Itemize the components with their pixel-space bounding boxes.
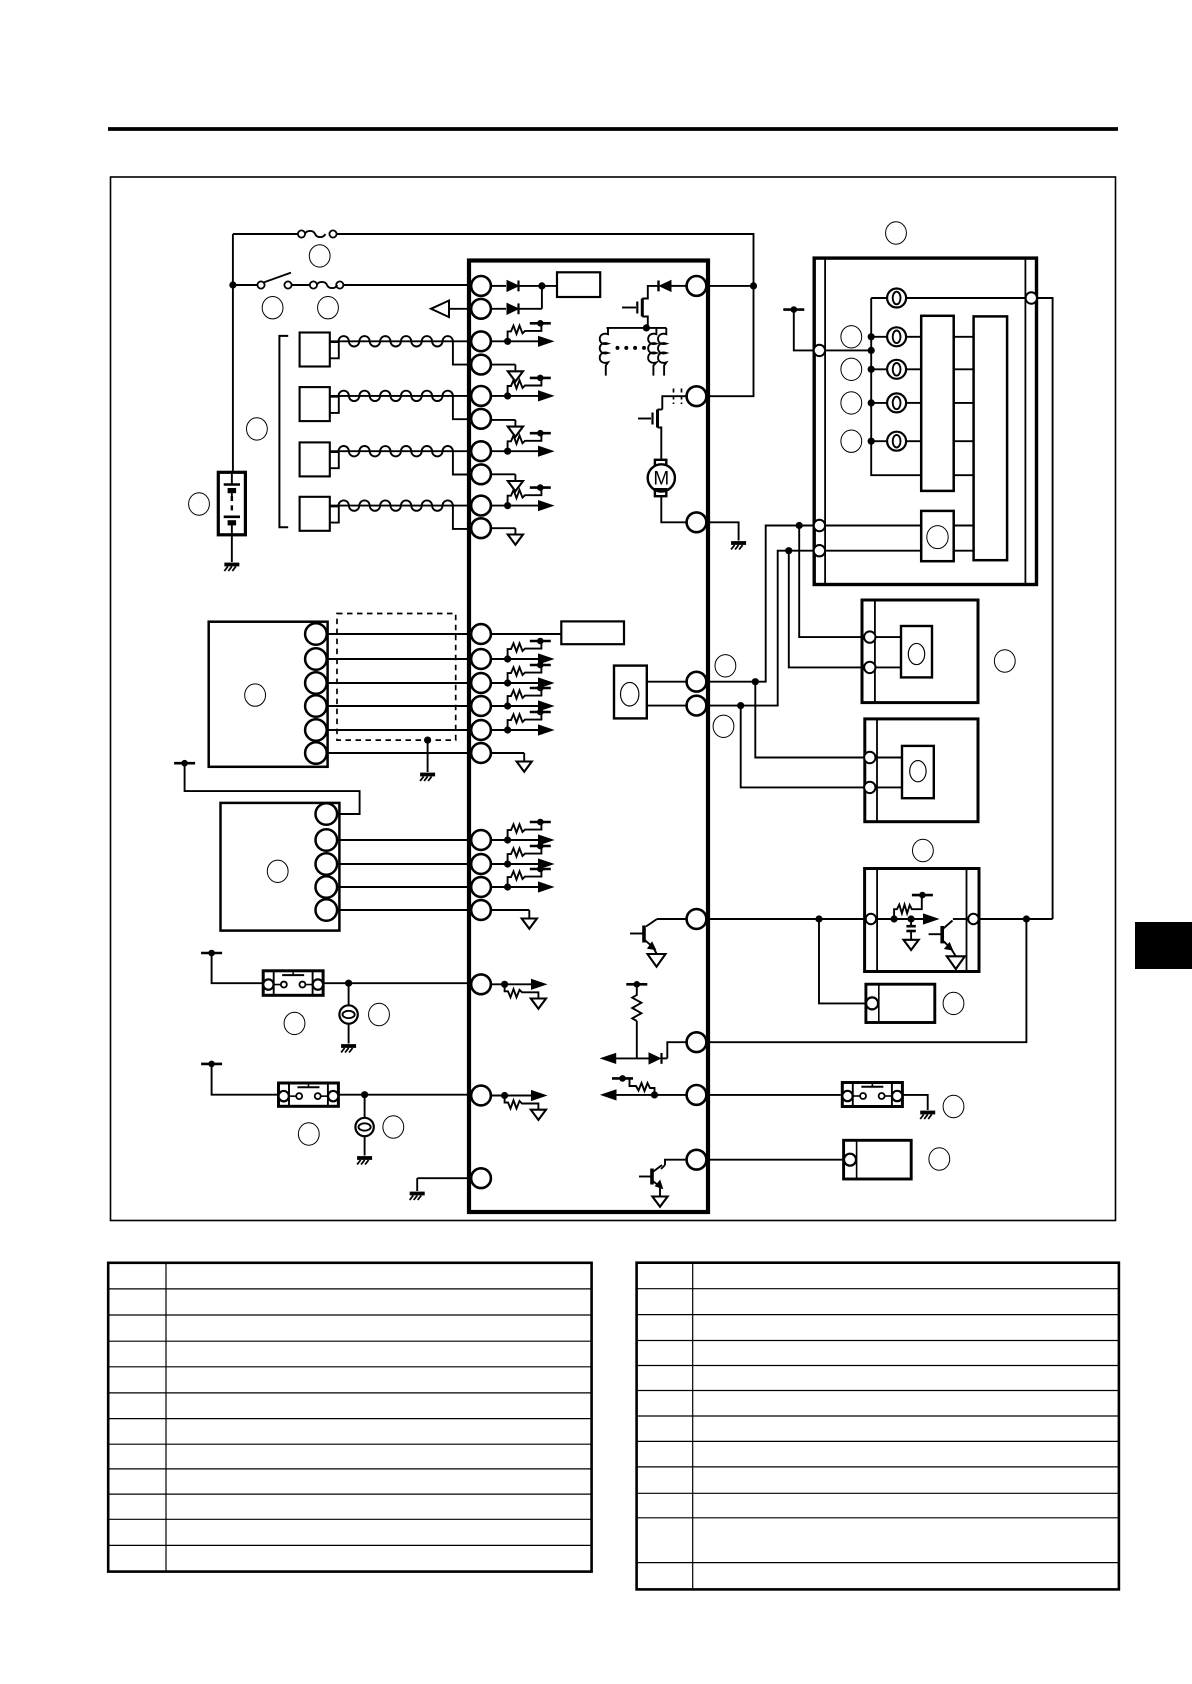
diode D2 pin A2 <box>491 303 542 314</box>
node switch1 lamp junction <box>345 980 352 987</box>
wire solenoid feedback <box>706 919 1026 1042</box>
injector INJ3 <box>300 442 472 476</box>
callout circle switch 1 <box>284 1012 305 1034</box>
resistor cell sensor2 line 3 <box>491 866 553 892</box>
meter driver block 1 <box>921 316 954 491</box>
warning lamp 3 <box>871 360 921 379</box>
transformer T1 secondary winding b <box>658 328 666 376</box>
meter lamp bus <box>871 298 921 475</box>
sensor unit box B2 <box>221 803 340 931</box>
amplifier box B <box>865 719 978 822</box>
wire power feed to sensor unit B2 <box>185 763 360 814</box>
sub-sensor box <box>614 666 647 719</box>
zener tail injector 4 return <box>491 528 523 545</box>
injector INJ2 <box>300 387 472 421</box>
motor M1 brush bottom <box>655 489 666 496</box>
transistor box C <box>929 919 968 956</box>
wire Q3 emitter to ground <box>659 1187 661 1197</box>
wire diag switch to ground <box>902 1095 927 1110</box>
svg-text:M: M <box>653 469 669 490</box>
wire fusible-link row left <box>233 233 298 235</box>
warning lamp 5 <box>871 432 921 451</box>
internal wire pin1042 <box>667 1042 686 1058</box>
callout circle ECU output a <box>715 655 736 677</box>
resistor cell injector 2 with zener <box>491 365 553 401</box>
node branch relay box D <box>815 915 822 922</box>
wire gauge to block2 b <box>954 550 974 552</box>
legend table right <box>637 1263 1119 1590</box>
node branch box A pin2 <box>785 547 792 554</box>
box C inner rail right <box>966 869 968 972</box>
ignition feedback transistor Q4 <box>630 919 687 950</box>
ignition switch S1 <box>257 273 291 289</box>
capacitor box C <box>904 919 919 950</box>
callout circle box C <box>912 839 933 861</box>
wire switch1 to ECU pin <box>323 982 471 984</box>
transformer T1 primary winding <box>600 328 608 376</box>
off-page arrow to pin A2 <box>431 301 467 318</box>
ground triangle Q3 <box>652 1197 667 1207</box>
wire branch to box B pin1 <box>755 682 864 758</box>
wire fuse to ECU pin A1 <box>343 284 471 286</box>
node shield ground tap <box>424 737 431 744</box>
node diode OR junction <box>538 282 545 289</box>
ECU left connector pins <box>471 276 491 1188</box>
wire lamp1 to ground <box>348 1024 350 1044</box>
MOSFET Q2 <box>638 410 662 428</box>
cell with pulldown pin 1095 <box>491 1091 546 1120</box>
callout circle diag switch <box>943 1095 964 1117</box>
node switch2 lamp junction <box>361 1091 368 1098</box>
ECU right connector pins <box>687 276 707 1170</box>
resistor cell sensor2 line 1 <box>491 819 553 845</box>
plunger switch SW3 <box>842 1083 902 1107</box>
relay box D <box>866 984 935 1022</box>
callout circle meter <box>886 222 907 244</box>
pull-up resistor R10 <box>632 987 641 1058</box>
ground cell sensor line 6 <box>491 753 532 772</box>
box B wires to element <box>876 758 903 788</box>
power tick sensor unit B2 <box>174 760 195 767</box>
wire sensor B1 line 5 <box>327 729 472 731</box>
wire battery to ground <box>231 535 233 562</box>
power tick R10 <box>626 981 647 988</box>
node ECU backup-power junction <box>750 282 757 289</box>
callout circle injector group <box>246 418 267 440</box>
wire gauge to block2 a <box>954 525 974 527</box>
output transistor Q3 <box>661 1160 687 1169</box>
callout circle box E <box>929 1148 950 1170</box>
wire sensor B2 line 3 <box>337 886 471 888</box>
ground lamp 2 <box>357 1158 372 1165</box>
box A pins <box>864 631 875 673</box>
box B element ellipse <box>910 761 926 782</box>
resistor cell sensor line 5 <box>491 709 553 735</box>
internal line pin1094 <box>602 1090 687 1100</box>
pull-up resistor R11 <box>630 1078 655 1095</box>
wire to indicator lamp 1 <box>348 983 350 1005</box>
power tick R11 <box>612 1075 633 1082</box>
wire meter b to ECU pin <box>706 551 813 706</box>
box C output wire <box>979 918 1053 920</box>
wire ECU to connector E <box>706 1159 842 1161</box>
wire ECU to diag switch <box>706 1094 841 1096</box>
callout circle inside sensor unit B1 <box>245 684 266 706</box>
wire node down to battery <box>232 285 234 472</box>
ground shield <box>420 775 435 782</box>
callout circle lamp 2 <box>383 1116 404 1138</box>
wire ECU pin to box C <box>706 918 866 920</box>
box B inner rail <box>876 719 878 822</box>
MOSFET Q1 <box>622 299 648 328</box>
meter inner rail left <box>824 258 826 584</box>
wire diode join <box>541 286 543 309</box>
wire branch to box A pin1 <box>799 526 864 638</box>
signal label box <box>561 621 624 644</box>
wire sensor B1 line 6 <box>327 752 472 754</box>
callout circle lamp 1 <box>369 1003 390 1025</box>
sub-sensor ellipse <box>621 682 639 706</box>
connector box E <box>844 1140 912 1179</box>
legend table left <box>108 1263 591 1572</box>
meter pin sensor a <box>814 520 825 531</box>
wire node to ignition switch <box>233 284 258 286</box>
motor M1 brush top <box>655 460 666 467</box>
ECU control-module box U1 <box>469 261 708 1213</box>
meter pin power <box>814 345 825 356</box>
diode D3 ignition <box>659 281 687 292</box>
resistor cell injector 1 <box>491 320 553 346</box>
wire branch to relay box D <box>819 919 867 1003</box>
wire sub-sensor to pin a <box>647 681 687 683</box>
callout circle inside sensor unit B2 <box>267 860 288 882</box>
fuse F2 <box>310 281 344 288</box>
box A element <box>901 626 932 677</box>
meter gauge box <box>921 511 954 561</box>
injector INJ4 <box>300 497 472 531</box>
wire power to switch 1 <box>212 953 264 983</box>
injector INJ1 <box>300 333 472 367</box>
callout circle ECU output b <box>713 715 734 737</box>
wire right pin1 to MOSFET diode <box>687 285 754 287</box>
wire meter gauge line b <box>825 550 921 552</box>
wire meter block link y441.2 <box>954 440 974 442</box>
wire ECU ground pin <box>417 1177 471 1179</box>
ground lamp 1 <box>341 1046 356 1053</box>
box E pin <box>844 1154 856 1166</box>
sensor unit box B1 <box>209 622 328 767</box>
wire pin to MOSFET Q2 <box>662 396 686 409</box>
resistor cell sensor line 4 <box>491 685 553 711</box>
resistor cell injector 3 with zener <box>491 420 553 456</box>
box C pin left <box>866 914 876 924</box>
power tick switch 1 <box>201 950 222 957</box>
power tick box C <box>912 892 933 899</box>
wire sensor B1 line 4 <box>327 705 472 707</box>
wire lamp2 to ground <box>364 1136 366 1155</box>
callout circles meter lamps <box>841 326 862 453</box>
wire down to throttle-motor supply pin <box>706 286 753 396</box>
meter driver block 2 <box>974 316 1008 560</box>
indicator lamp LP1 <box>339 1005 357 1023</box>
box C pin right <box>968 914 978 924</box>
resistor cell sensor2 line 2 <box>491 843 553 869</box>
power tick switch 2 <box>201 1061 222 1068</box>
connector circles sensor unit B2 <box>316 803 338 921</box>
callout circle fusible link <box>309 245 330 267</box>
callout circle switch 2 <box>298 1123 319 1145</box>
box D inner rail <box>878 984 880 1022</box>
warning lamp 4 <box>871 393 921 412</box>
wire sensor B1 line 3 <box>327 682 472 684</box>
wire sub-sensor to pin b <box>647 705 687 707</box>
node battery junction <box>229 281 236 288</box>
wire meter block link y475.2 <box>954 474 974 476</box>
wire sensor B2 line 2 <box>337 863 471 865</box>
page section tab (black) <box>1135 922 1192 969</box>
arrow out pin1042 <box>601 1054 616 1064</box>
wire sensor B1 line 1 <box>327 633 472 635</box>
wire power to switch 2 <box>212 1064 279 1095</box>
node branch box B pin2 <box>737 702 744 709</box>
motor M1 <box>648 464 675 491</box>
shield dashed box <box>337 614 456 741</box>
wire diode to MOSFET Q1 drain <box>642 286 658 299</box>
wire switch to fuse <box>292 284 310 286</box>
wire Q2 source to motor <box>658 428 662 460</box>
wire meter block link y369.3 <box>954 368 974 370</box>
box B pins <box>864 752 875 793</box>
node transformer primary junction <box>643 324 650 331</box>
box A inner rail <box>874 600 876 703</box>
wire motor to pin <box>661 496 686 522</box>
node branch box B pin1 <box>752 678 759 685</box>
callout circle ignition switch <box>262 297 283 319</box>
connector circles sensor unit B1 <box>305 623 327 764</box>
power tick meter <box>783 306 804 313</box>
wire meter pin to bus <box>825 349 871 351</box>
wire meter lamp feed right <box>1037 298 1053 919</box>
callout circle battery <box>189 493 210 515</box>
wire sensor B1 line 2 <box>327 658 472 660</box>
wire Q4 emitter to ground <box>653 947 657 954</box>
meter bus nodes <box>868 333 875 445</box>
transformer T1 secondary winding a <box>648 328 656 376</box>
meter pin sensor b <box>814 545 825 556</box>
cell with pulldown pin 984 <box>491 979 546 1008</box>
wire pin to signal label box <box>491 633 561 635</box>
node branch box A pin1 <box>796 522 803 529</box>
wire sensor B2 line 4 <box>337 909 471 911</box>
resistor cell sensor line 3 <box>491 662 553 688</box>
warning lamp 1 <box>871 289 1025 308</box>
wire motor-return pin to ground <box>706 522 738 540</box>
ground diag switch <box>920 1113 935 1120</box>
wire branch to box B pin2 <box>741 706 865 788</box>
meter inner rail right <box>1024 258 1026 584</box>
box E inner rail <box>856 1140 858 1179</box>
dashed connector marks <box>674 389 682 405</box>
box C input line <box>876 914 938 924</box>
callout circle meter gauge <box>927 526 948 549</box>
node branch solenoid line <box>1023 915 1030 922</box>
wire fusible link to down-corner <box>337 234 754 286</box>
wire meter block link y336.8 <box>954 336 974 338</box>
box C inner rail left <box>876 869 878 972</box>
resistor cell sensor line 2 <box>491 638 553 664</box>
wire battery node to fusible link row <box>232 234 234 285</box>
wire meter a to ECU pin <box>706 526 813 682</box>
page top rule <box>108 127 1118 131</box>
wire meter gauge line a <box>825 525 921 527</box>
wire switch2 to ECU pin <box>338 1094 471 1096</box>
wire sensor B2 line 1 <box>337 839 471 841</box>
diagram outer frame <box>111 177 1116 1221</box>
warning lamp 2 <box>871 327 921 346</box>
meter pin top right <box>1026 292 1037 303</box>
amplifier box A <box>862 600 978 703</box>
diode D1 pin A1 <box>491 281 557 292</box>
ground throttle motor return <box>731 543 746 550</box>
fusible link F1 <box>298 230 337 237</box>
wire meter block link y402.9 <box>954 402 974 404</box>
diode D4 <box>613 1053 667 1064</box>
wire ground drop <box>416 1178 418 1191</box>
wire meter power feed <box>794 310 814 351</box>
plunger switch SW2 <box>279 1083 339 1106</box>
resistor cell injector 4 with zener <box>491 474 553 510</box>
igniter box C <box>865 869 979 972</box>
bracket injector group <box>279 336 288 527</box>
indicator lamp LP2 <box>355 1118 373 1136</box>
wire shield to ground <box>427 740 429 772</box>
wire transformer top bus <box>607 327 667 329</box>
callout circle box D <box>943 992 964 1014</box>
callout circle fuse <box>318 297 339 319</box>
callout circle box A <box>994 650 1015 672</box>
wire branch to box A pin2 <box>789 551 864 668</box>
combination meter box <box>814 258 1036 584</box>
transformer core dots <box>616 346 647 350</box>
transistor Q3 body <box>639 1165 663 1189</box>
box D pin <box>866 997 878 1009</box>
box A wires to element <box>876 637 902 667</box>
resistor box C <box>894 895 922 919</box>
ground cell sensor2 line 4 <box>491 910 537 929</box>
wire to indicator lamp 2 <box>364 1095 366 1118</box>
box B element <box>902 746 934 798</box>
ground battery <box>224 565 239 572</box>
ground triangle box C transistor <box>947 956 965 969</box>
plunger switch SW1 <box>263 971 323 996</box>
box A element ellipse <box>908 643 924 664</box>
battery BAT <box>218 472 245 535</box>
ground ECU case <box>410 1194 425 1201</box>
power block label box <box>557 272 600 297</box>
ground triangle Q4 <box>648 954 666 967</box>
